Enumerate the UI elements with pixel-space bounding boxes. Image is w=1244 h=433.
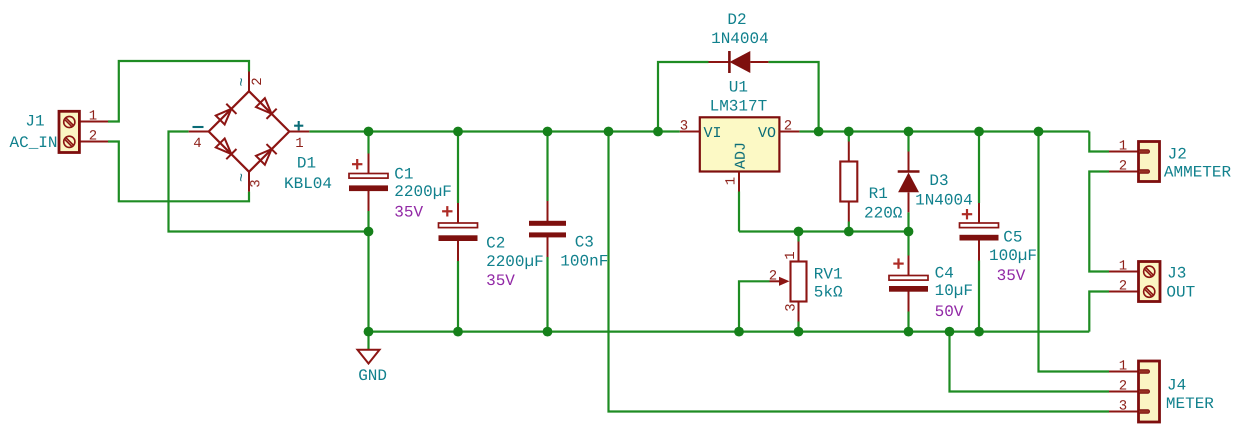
svg-text:1: 1: [783, 251, 799, 259]
wire C3 bottom branch: [546, 257, 548, 332]
diode D3 pin top: [908, 152, 910, 172]
potentiometer RV1 body: [791, 262, 807, 302]
junction RV1 wiper bottom: [734, 327, 744, 337]
junction D3 top: [904, 127, 914, 137]
svg-text:J1: J1: [25, 113, 44, 131]
connector J3 pin 2: [1109, 291, 1139, 293]
junction GND rail left: [364, 327, 374, 337]
junction C5 bottom: [974, 327, 984, 337]
junction C4 bottom: [904, 327, 914, 337]
wire J3 pin2 to ground rail: [1089, 292, 1109, 332]
svg-text:1: 1: [1119, 259, 1127, 275]
regulator U1 pin 3 VI: [680, 131, 700, 133]
svg-text:C3: C3: [575, 234, 594, 252]
svg-text:100µF: 100µF: [989, 247, 1037, 265]
junction D2 right: [814, 127, 824, 137]
bridge D1 diode bottom-right: [255, 144, 276, 165]
capacitor C1 plus: [352, 159, 362, 169]
svg-text:J3: J3: [1167, 264, 1186, 282]
capacitor C4 bottom plate: [889, 286, 928, 292]
svg-text:RV1: RV1: [814, 265, 843, 283]
junction C3 bottom: [543, 327, 553, 337]
svg-text:1N4004: 1N4004: [915, 192, 973, 210]
junction RV1 top on ADJ rail: [794, 227, 804, 237]
svg-text:D3: D3: [929, 172, 948, 190]
junction C1 top: [364, 127, 374, 137]
bridge D1 pin name plus: [294, 121, 303, 130]
connector J4 contact 3: [1139, 410, 1150, 414]
svg-text:1: 1: [724, 177, 740, 185]
resistor R1 body: [840, 162, 857, 202]
wire J1 pin2 to bridge bottom: [108, 142, 249, 202]
svg-text:3: 3: [680, 118, 688, 134]
bridge D1 pin 3 bottom: [248, 172, 250, 192]
wire C2 top branch: [457, 132, 459, 204]
capacitor C4 plus: [893, 258, 903, 268]
connector J1 screw 2: [64, 136, 75, 147]
svg-text:D1: D1: [297, 155, 316, 173]
capacitor C5 pin bottom: [978, 241, 980, 261]
wire RV1 wiper to ground rail: [739, 281, 770, 331]
connector J3 body: [1139, 262, 1161, 302]
svg-text:1: 1: [1119, 139, 1127, 155]
wire C3 top branch: [546, 132, 548, 202]
svg-text:OUT: OUT: [1166, 284, 1195, 302]
junction C2 top: [453, 127, 463, 137]
wire ground rail: [369, 331, 1090, 333]
junction C5 top: [974, 127, 984, 137]
junction C2 bottom: [453, 327, 463, 337]
svg-text:10µF: 10µF: [935, 282, 973, 300]
svg-text:220Ω: 220Ω: [864, 205, 903, 223]
svg-text:35V: 35V: [394, 204, 423, 222]
svg-text:J4: J4: [1167, 377, 1186, 395]
wire top rail to J2 pin1: [1089, 132, 1109, 152]
diode D2 cathode bar: [728, 51, 731, 73]
wire RV1 bottom stub: [797, 322, 799, 332]
svg-text:C1: C1: [394, 166, 413, 184]
capacitor C4 pin top: [908, 256, 910, 276]
capacitor C2 pin bottom: [457, 241, 459, 261]
junction R1 bottom on ADJ rail: [844, 227, 854, 237]
svg-text:J2: J2: [1168, 146, 1187, 164]
svg-text:2: 2: [89, 129, 97, 145]
svg-text:2: 2: [1119, 379, 1127, 395]
svg-text:3: 3: [248, 179, 264, 187]
wire C1 to negative rail: [367, 211, 369, 232]
capacitor C4 pin bottom: [908, 292, 910, 312]
regulator U1 body: [700, 117, 780, 171]
junction C1 bottom negative rail: [364, 227, 374, 237]
wire J2 pin2 to J3 pin1: [1089, 172, 1109, 272]
wire ground stub: [367, 332, 369, 350]
capacitor C3 pin bottom: [547, 237, 549, 257]
capacitor C5 top plate: [960, 223, 999, 228]
connector J2 pin 1: [1109, 151, 1139, 153]
diode D3 body: [898, 173, 919, 193]
svg-text:R1: R1: [869, 185, 888, 203]
regulator U1 pin 2 VO: [779, 131, 799, 133]
svg-text:VO: VO: [758, 125, 776, 142]
junction J4 pin1 branch: [1034, 127, 1044, 137]
svg-text:GND: GND: [358, 367, 387, 385]
svg-text:~: ~: [234, 77, 251, 86]
connector J4 contact 1: [1139, 370, 1150, 374]
resistor R1 pin bottom: [848, 202, 850, 222]
svg-text:D2: D2: [727, 11, 746, 29]
svg-text:LM317T: LM317T: [710, 98, 768, 116]
connector J3 screw 2: [1144, 286, 1155, 297]
wire top rail to J4 pin1: [1039, 132, 1110, 372]
svg-text:AMMETER: AMMETER: [1164, 164, 1232, 182]
connector J4 pin 2: [1109, 391, 1139, 393]
connector J4 pin 1: [1109, 371, 1139, 373]
potentiometer RV1 pin 3 bottom: [798, 302, 800, 322]
svg-text:METER: METER: [1166, 395, 1214, 413]
diode D2 pin left: [709, 61, 730, 63]
junction RV1 pin3 bottom: [794, 327, 804, 337]
capacitor C2 pin top: [457, 203, 459, 223]
capacitor C1 bottom plate: [349, 185, 388, 191]
connector J1 body: [59, 111, 79, 152]
wire D2 right leg: [768, 62, 818, 132]
connector J1 screw 1: [64, 116, 75, 127]
bridge D1 pin 2 top: [248, 72, 250, 92]
junction D3 C4 on ADJ rail: [904, 227, 914, 237]
diode D3 pin bottom: [908, 192, 910, 212]
junction C3 top: [543, 127, 553, 137]
svg-text:2200µF: 2200µF: [486, 253, 544, 271]
wire J1 pin1 to bridge top: [108, 61, 249, 122]
capacitor C2 top plate: [439, 223, 478, 228]
wire C2 bottom branch: [457, 261, 459, 332]
capacitor C3 top plate: [529, 221, 566, 226]
connector J3 screw 1: [1144, 266, 1155, 277]
wire bridge negative to C1 bottom: [169, 132, 369, 232]
ground symbol: [358, 350, 380, 364]
svg-text:35V: 35V: [997, 267, 1026, 285]
junction J4 branch top: [604, 127, 614, 137]
svg-text:2200µF: 2200µF: [394, 183, 452, 201]
wire D3 bottom stub: [907, 212, 909, 231]
connector J2 pin 2: [1109, 171, 1139, 173]
junction D2 left: [653, 127, 663, 137]
wire top rail left (bridge + to U1 VI): [309, 130, 680, 132]
bridge D1 pin 4 left: [189, 131, 209, 133]
svg-text:U1: U1: [729, 79, 748, 97]
diode D3 cathode bar: [898, 170, 920, 173]
capacitor C1 pin bottom: [368, 191, 370, 211]
wire U1 ADJ down: [738, 192, 740, 232]
capacitor C3 pin top: [547, 201, 549, 221]
svg-text:C2: C2: [486, 234, 505, 252]
regulator U1 pin 1 ADJ: [738, 172, 740, 192]
connector J4 pin 3: [1109, 411, 1139, 413]
svg-text:4: 4: [193, 136, 201, 152]
potentiometer RV1 pin 1 top: [798, 242, 800, 262]
svg-text:1: 1: [295, 136, 303, 152]
svg-text:100nF: 100nF: [560, 253, 608, 271]
capacitor C3 bottom plate: [529, 232, 566, 237]
svg-text:2: 2: [1119, 159, 1127, 175]
connector J4 contact 2: [1139, 390, 1150, 394]
svg-text:35V: 35V: [486, 272, 515, 290]
wire R1 top stub: [848, 132, 850, 142]
wire top rail right (U1 VO to J2 corner): [799, 130, 1089, 132]
capacitor C5 plus: [962, 209, 972, 219]
capacitor C5 bottom plate: [960, 235, 999, 241]
svg-text:AC_IN: AC_IN: [9, 134, 57, 152]
capacitor C1 top plate: [349, 174, 388, 179]
wire ground rail to J4 pin2: [950, 332, 1110, 392]
capacitor C2 bottom plate: [439, 235, 478, 241]
capacitor C5 pin top: [978, 203, 980, 223]
svg-text:C5: C5: [1003, 228, 1022, 246]
svg-text:3: 3: [784, 303, 800, 311]
connector J4 body: [1139, 361, 1160, 422]
svg-text:3: 3: [1119, 399, 1127, 415]
wire D3 top stub: [907, 132, 909, 152]
bridge D1 diode top-right: [255, 98, 276, 119]
wire C4 top stub: [907, 232, 909, 256]
wire RV1 top stub: [797, 232, 799, 242]
capacitor C4 top plate: [889, 276, 928, 281]
connector J1 pin 1: [79, 121, 108, 123]
wire C1 branch: [367, 132, 369, 154]
bridge D1 diamond: [209, 91, 290, 172]
svg-text:ADJ: ADJ: [733, 142, 750, 169]
svg-text:2: 2: [769, 268, 777, 284]
svg-text:5kΩ: 5kΩ: [814, 283, 843, 301]
svg-text:50V: 50V: [935, 303, 964, 321]
wire C5 top branch: [978, 132, 980, 204]
svg-text:2: 2: [784, 118, 792, 134]
connector J1 pin 2: [79, 141, 108, 143]
wire C5 bottom branch: [978, 261, 980, 332]
wire top rail to J4 pin3: [609, 132, 1110, 412]
potentiometer RV1 wiper arrow: [779, 277, 790, 286]
potentiometer RV1 wiper pin: [770, 280, 781, 282]
connector J2 contact 1: [1139, 150, 1150, 154]
connector J2 contact 2: [1139, 170, 1150, 174]
svg-text:1: 1: [1119, 359, 1127, 375]
svg-text:KBL04: KBL04: [284, 175, 332, 193]
wire R1 bottom stub: [848, 222, 850, 232]
connector J2 body: [1139, 142, 1160, 182]
capacitor C2 plus: [442, 206, 452, 216]
resistor R1 pin top: [848, 142, 850, 162]
bridge D1 diode bottom-left: [215, 138, 236, 159]
capacitor C1 pin top: [368, 154, 370, 174]
wire D2 left leg: [658, 62, 709, 132]
svg-text:2: 2: [250, 77, 266, 85]
wire negative rail down to ground rail: [367, 232, 369, 332]
junction R1 top: [844, 127, 854, 137]
svg-text:2: 2: [1119, 279, 1127, 295]
svg-text:1: 1: [89, 109, 97, 125]
connector J3 pin 1: [1109, 271, 1139, 273]
bridge D1 diode top-left: [215, 104, 236, 125]
svg-text:VI: VI: [704, 125, 722, 142]
diode D2 body: [730, 51, 751, 73]
wire C4 bottom stub: [907, 312, 909, 332]
junction J4 pin2 branch: [945, 327, 955, 337]
bridge D1 pin name minus: [193, 126, 204, 128]
wire ADJ rail: [739, 230, 909, 232]
svg-text:C4: C4: [935, 265, 954, 283]
svg-text:1N4004: 1N4004: [711, 30, 769, 48]
bridge D1 pin 1 right: [289, 131, 309, 133]
diode D2 pin right: [750, 61, 768, 63]
